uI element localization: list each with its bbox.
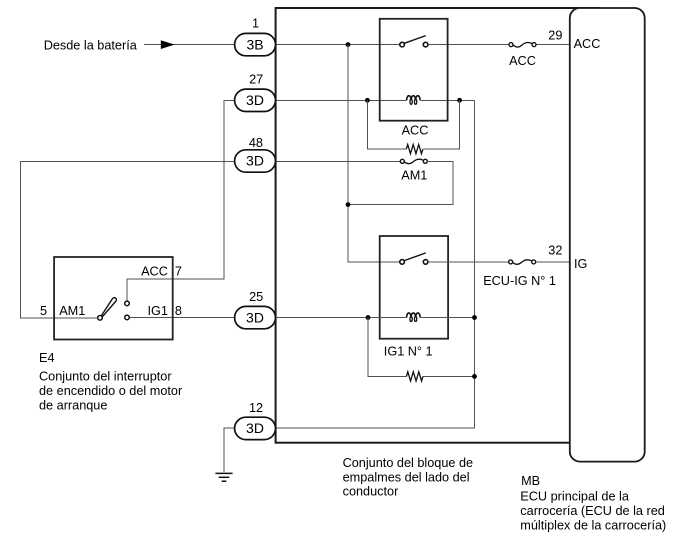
node dot AM1 return (346, 202, 351, 207)
ACC relay switch right contact (423, 42, 428, 47)
IG1 relay switch left contact (400, 260, 405, 265)
svg-text:5: 5 (40, 304, 47, 318)
svg-text:E4: E4 (39, 351, 55, 365)
svg-text:3D: 3D (246, 309, 264, 325)
svg-text:3D: 3D (246, 153, 264, 169)
svg-text:MB: MB (521, 474, 540, 488)
svg-text:Conjunto del interruptor: Conjunto del interruptor (39, 370, 172, 384)
svg-text:AM1: AM1 (59, 304, 85, 318)
ground symbol (215, 473, 232, 481)
node dot on 3B wire (346, 42, 351, 47)
svg-text:IG1: IG1 (147, 304, 167, 318)
connector oval 3D pin 48 (235, 136, 276, 172)
svg-text:ACC: ACC (574, 37, 601, 51)
fuse ECU-IG No 1 (509, 260, 536, 265)
wire 3D-12 to ground (224, 428, 235, 472)
E4 IG1 contact (125, 315, 130, 320)
wire IG1 relay to ECU-IG fuse (428, 261, 508, 263)
svg-text:ACC: ACC (509, 54, 536, 68)
svg-text:conductor: conductor (343, 485, 399, 499)
connector oval 3D pin 12 (235, 401, 276, 440)
svg-text:Desde la batería: Desde la batería (44, 39, 138, 53)
svg-text:8: 8 (175, 304, 182, 318)
svg-text:3D: 3D (246, 92, 264, 108)
wire 3D-25 to IG1 coil (276, 317, 407, 319)
wire 3D-48 to AM1 fuse (276, 160, 400, 162)
wire vertical from 3B node down to IG1 relay switch (348, 45, 400, 263)
svg-text:carrocería (ECU de la red: carrocería (ECU de la red (520, 504, 665, 518)
svg-text:48: 48 (249, 136, 263, 150)
wire 3D-27 to E4 ACC terminal (127, 100, 235, 301)
svg-text:Conjunto del bloque de: Conjunto del bloque de (343, 456, 474, 470)
wire battery feed to 3B (144, 44, 235, 46)
svg-text:IG: IG (574, 257, 587, 271)
svg-text:32: 32 (548, 244, 562, 258)
svg-text:de encendido o del motor: de encendido o del motor (39, 384, 183, 398)
ACC relay box (380, 19, 448, 121)
svg-text:25: 25 (249, 290, 263, 304)
wire ACC relay to ACC fuse (428, 44, 509, 46)
E4 switch lever (102, 298, 117, 316)
IG1 resistor leads (368, 318, 406, 377)
IG1 relay coil (407, 313, 421, 322)
arrowhead battery feed (161, 40, 175, 49)
resistor zigzag ACC (406, 145, 423, 154)
IG1 relay switch lever (405, 253, 426, 261)
node dot coil left (365, 98, 370, 103)
svg-text:empalmes del lado del: empalmes del lado del (343, 470, 470, 484)
resistor zigzag IG1 (406, 372, 423, 381)
svg-text:12: 12 (249, 401, 263, 415)
connector oval 3B (235, 17, 276, 56)
IG1 relay switch right contact (423, 260, 428, 265)
wire ACC fuse to ECU pin 29 (536, 44, 570, 46)
wire 3D-27 coil row (276, 99, 407, 101)
wire E4 IG1 terminal to 3D-25 (130, 317, 235, 319)
node dot coil right (457, 98, 462, 103)
E4 ignition switch box (54, 257, 173, 340)
svg-text:ACC: ACC (141, 265, 168, 279)
ECU MB box (570, 8, 645, 462)
svg-text:3B: 3B (246, 36, 263, 52)
svg-text:ECU principal de la: ECU principal de la (520, 490, 630, 504)
E4 ACC contact (125, 301, 130, 306)
svg-text:de arranque: de arranque (39, 399, 107, 413)
svg-text:ACC: ACC (402, 124, 429, 138)
svg-text:3D: 3D (246, 420, 264, 436)
svg-text:29: 29 (548, 28, 562, 42)
fuse AM1 (400, 159, 427, 164)
svg-text:1: 1 (252, 17, 259, 31)
connector oval 3D pin 25 (235, 290, 276, 329)
svg-text:27: 27 (249, 73, 263, 87)
ACC relay resistor leads (367, 100, 406, 149)
node dot IG1 coil left (366, 315, 371, 320)
svg-text:AM1: AM1 (401, 168, 427, 182)
junction block J/B outline (276, 8, 600, 443)
wire ECU-IG fuse to ECU pin 32 (536, 261, 570, 263)
IG1 relay box (380, 236, 448, 339)
ACC relay coil (407, 96, 421, 105)
wire 3D-48 to E4 AM1 terminal (21, 161, 235, 317)
node dot IG1 coil right (472, 315, 477, 320)
ACC relay switch left contact (400, 42, 405, 47)
wire 3B to ACC relay switch (276, 44, 400, 46)
connector oval 3D pin 27 (235, 73, 276, 112)
svg-text:IG1 N° 1: IG1 N° 1 (384, 345, 433, 359)
node dot IG1 resistor right (472, 374, 477, 379)
wire AM1 fuse return to node (348, 161, 453, 204)
svg-text:múltiplex de la carrocería): múltiplex de la carrocería) (520, 519, 666, 533)
wire long vertical to 3D-12 row (276, 100, 475, 428)
fuse ACC (509, 43, 536, 48)
svg-text:7: 7 (175, 265, 182, 279)
ACC relay switch lever (405, 36, 426, 44)
E4 AM1 contact (98, 316, 103, 321)
svg-text:ECU-IG N° 1: ECU-IG N° 1 (483, 274, 556, 288)
